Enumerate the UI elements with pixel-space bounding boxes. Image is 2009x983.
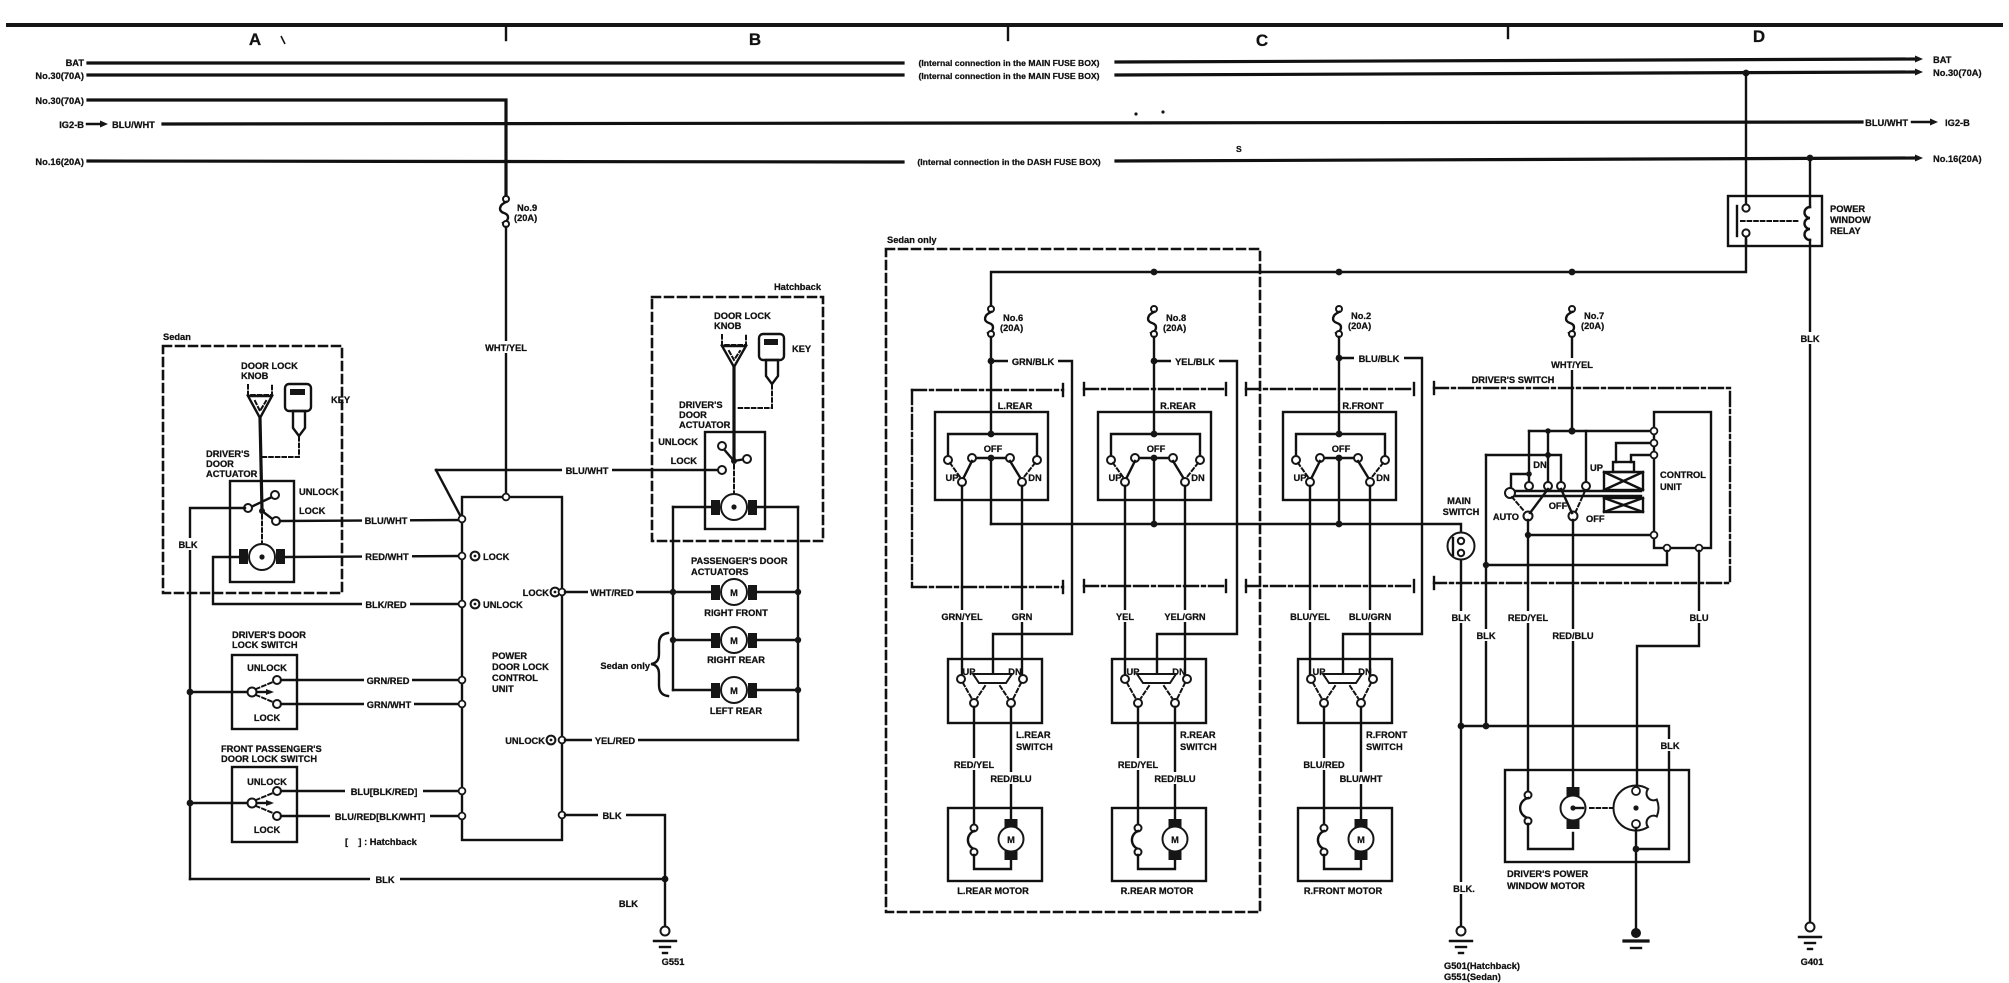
- motor RIGHT REAR actuator: [670, 627, 801, 653]
- svg-text:DN: DN: [1191, 473, 1205, 483]
- svg-text:RED/BLU: RED/BLU: [1552, 631, 1594, 641]
- driver's switch dash-dot enclosure: [1434, 382, 1730, 589]
- relay contacts: [1742, 204, 1749, 211]
- svg-text:YEL/RED: YEL/RED: [595, 736, 636, 746]
- wire fuse No.6 to L.REAR switch: [990, 337, 992, 434]
- wire BLU/BLK to R.FRONT door switch: [1339, 358, 1422, 673]
- svg-text:LOCK: LOCK: [523, 588, 550, 598]
- junction BLK at motor return: [1458, 723, 1465, 730]
- svg-text:DN: DN: [1533, 460, 1547, 470]
- svg-text:No.2: No.2: [1351, 311, 1371, 321]
- svg-text:WINDOW MOTOR: WINDOW MOTOR: [1507, 881, 1585, 891]
- svg-text:OFF: OFF: [984, 444, 1003, 454]
- passenger actuators left feed wire: [672, 507, 674, 690]
- arrow IG2-B to BLU/WHT: [87, 123, 102, 125]
- border tick B|C: [1007, 27, 1009, 40]
- Sedan dashed enclosure: [163, 346, 342, 593]
- svg-text:No.16(20A): No.16(20A): [1933, 154, 1982, 164]
- svg-text:RED/BLU: RED/BLU: [1154, 774, 1196, 784]
- svg-text:DOOR: DOOR: [679, 410, 707, 420]
- pin BLU/WHT on control unit left: [459, 516, 466, 523]
- passenger lock switch UNLOCK contact: [273, 787, 281, 795]
- junction BLU/BLK tap: [1336, 355, 1343, 362]
- svg-text:BLU/RED[BLK/WHT]: BLU/RED[BLK/WHT]: [335, 812, 425, 822]
- wire No.16(20A) bus left segment: [88, 161, 903, 162]
- pin BLK/RED with UNLOCK terminal: [459, 601, 466, 608]
- wire BLK/RED sedan motor to control unit: [213, 557, 460, 604]
- svg-text:GRN/WHT: GRN/WHT: [367, 700, 412, 710]
- R.REAR switch feed bar: [1111, 434, 1200, 456]
- wire BLK main switch to ground: [1460, 560, 1462, 931]
- Sedan only dashed enclosure: [886, 249, 1260, 912]
- wire feed to OFF contact: [1528, 431, 1530, 482]
- wire BLU/RED door switch to motor: [1323, 707, 1325, 828]
- svg-text:IG2-B: IG2-B: [59, 120, 84, 130]
- svg-text:R.REAR: R.REAR: [1180, 730, 1216, 740]
- R.REAR door switch contacts: [1121, 675, 1129, 683]
- wire fuse No.2 to R.FRONT switch: [1338, 337, 1340, 434]
- control unit pins bottom: [1664, 545, 1671, 552]
- svg-text:UP: UP: [1590, 463, 1603, 473]
- wire control unit to solenoid 2: [1631, 455, 1654, 462]
- wire clutch to ground: [1635, 828, 1637, 931]
- wire No.16(20A) bus right segment: [1116, 158, 1916, 161]
- svg-text:LEFT REAR: LEFT REAR: [710, 706, 762, 716]
- wire control unit to solenoid 1: [1616, 443, 1654, 462]
- svg-text:DRIVER'S SWITCH: DRIVER'S SWITCH: [1472, 375, 1555, 385]
- wire WHT/YEL fuse No.9 to door lock control unit: [505, 227, 507, 496]
- top border frame line: [8, 23, 2001, 27]
- pin BLK output right: [559, 812, 566, 819]
- svg-text:BLU/BLK: BLU/BLK: [1359, 354, 1400, 364]
- wire No.16 bus to relay coil: [1809, 158, 1811, 207]
- actuator motor (sedan): [239, 544, 285, 570]
- svg-text:M: M: [730, 636, 738, 646]
- wire BLU/YEL R.FRONT switch UP output: [1309, 486, 1311, 679]
- control unit pins left: [1651, 428, 1658, 435]
- relay contact to window feed bus: [1745, 237, 1747, 244]
- front passenger's door lock switch box: [232, 767, 297, 842]
- stray tick mark near A: [281, 36, 285, 44]
- R.FRONT switch feed bar: [1296, 434, 1385, 456]
- svg-text:C: C: [1256, 31, 1268, 50]
- wire No.30 bus to relay contact: [1745, 73, 1747, 204]
- actuator contact LOCK feed (hatchback): [718, 466, 726, 474]
- power window relay box: [1728, 196, 1822, 246]
- svg-text:Sedan only: Sedan only: [887, 235, 937, 245]
- auto-stop solenoid hat: [1613, 462, 1634, 472]
- svg-text:YEL/BLK: YEL/BLK: [1175, 357, 1215, 367]
- svg-text:M: M: [730, 686, 738, 696]
- actuator contact UNLOCK (hatchback): [718, 442, 726, 450]
- wire GRN/BLK to L.REAR door switch: [991, 361, 1072, 673]
- R.FRONT door switch rocker: [1323, 674, 1362, 683]
- wire DN contacts feed: [1547, 431, 1549, 482]
- R.FRONT window switch box: [1283, 412, 1396, 500]
- wire BAT bus right segment: [1116, 59, 1916, 62]
- svg-text:G401: G401: [1801, 957, 1824, 967]
- svg-text:LOCK: LOCK: [671, 456, 698, 466]
- svg-text:CONTROL: CONTROL: [1660, 470, 1706, 480]
- svg-text:UNLOCK: UNLOCK: [299, 487, 339, 497]
- actuator contact common (sedan): [244, 504, 252, 512]
- svg-text:RED/YEL: RED/YEL: [1508, 613, 1549, 623]
- svg-text:BLK: BLK: [1660, 741, 1679, 751]
- svg-text:RED/YEL: RED/YEL: [1118, 760, 1159, 770]
- driver's door lock switch box: [232, 655, 297, 729]
- passenger actuators right feed wire: [797, 507, 799, 740]
- actuator blade (hatchback): [722, 447, 734, 461]
- svg-text:DOOR LOCK: DOOR LOCK: [714, 311, 771, 321]
- L.REAR door switch rocker: [973, 674, 1012, 683]
- window power feed bus from relay: [991, 240, 1746, 309]
- passenger lock switch common contact: [248, 799, 257, 808]
- svg-text:(Internal connection in the MA: (Internal connection in the MAIN FUSE BO…: [919, 71, 1100, 81]
- wire GRN/YEL L.REAR switch UP output: [961, 486, 963, 679]
- svg-text:M: M: [1007, 835, 1015, 845]
- L.REAR switch feed bar: [948, 434, 1037, 456]
- svg-text:BLU/GRN: BLU/GRN: [1349, 612, 1392, 622]
- arrowhead BAT right: [1915, 56, 1923, 63]
- R.REAR motor M: [1169, 819, 1182, 828]
- svg-text:UNLOCK: UNLOCK: [247, 777, 287, 787]
- svg-text:POWER: POWER: [1830, 204, 1865, 214]
- svg-text:(20A): (20A): [514, 213, 537, 223]
- main switch symbol: [1448, 533, 1475, 560]
- svg-text:Sedan: Sedan: [163, 332, 191, 342]
- svg-text:No.8: No.8: [1166, 313, 1186, 323]
- wire WHT/RED control unit to actuators: [565, 591, 712, 593]
- dashed link motor to clutch: [1590, 807, 1630, 809]
- wire hatchback motor right to passenger feed: [757, 506, 798, 508]
- R.REAR contact row: [1135, 457, 1173, 459]
- moving contact OFF right: [1569, 512, 1578, 521]
- border tick C|D: [1507, 27, 1509, 38]
- svg-text:BLU/RED: BLU/RED: [1303, 760, 1345, 770]
- svg-text:FRONT PASSENGER'S: FRONT PASSENGER'S: [221, 744, 322, 754]
- junction left feed at WHT/RED row: [670, 589, 676, 595]
- svg-text:[ ] : Hatchback: [ ] : Hatchback: [345, 837, 418, 847]
- svg-text:M: M: [730, 588, 738, 598]
- svg-text:BLU: BLU: [1689, 613, 1708, 623]
- svg-text:BLU/WHT: BLU/WHT: [112, 120, 155, 130]
- svg-text:UNLOCK: UNLOCK: [658, 437, 698, 447]
- svg-text:Sedan only: Sedan only: [600, 661, 650, 671]
- svg-text:RELAY: RELAY: [1830, 226, 1861, 236]
- svg-text:LOCK: LOCK: [254, 713, 281, 723]
- svg-text:BLU/WHT: BLU/WHT: [566, 466, 609, 476]
- ground G551: [654, 927, 684, 968]
- auto-stop solenoid lower box: [1604, 498, 1643, 512]
- svg-text:DN: DN: [1376, 473, 1390, 483]
- window switch common bus to main switch: [991, 524, 1461, 533]
- motor RIGHT FRONT actuator: [711, 579, 757, 605]
- svg-text:UP: UP: [1109, 473, 1122, 483]
- wire driver's lock switch common to BLK vertical: [190, 691, 247, 693]
- driver's door actuator box (hatchback): [705, 432, 765, 529]
- svg-text:G551(Sedan): G551(Sedan): [1444, 972, 1501, 982]
- svg-text:RED/BLU: RED/BLU: [990, 774, 1032, 784]
- wire RED/YEL AUTO output to motor: [1527, 535, 1529, 791]
- wire control unit to BLK return: [1486, 551, 1667, 565]
- svg-text:L.REAR: L.REAR: [998, 401, 1033, 411]
- svg-text:WINDOW: WINDOW: [1830, 215, 1871, 225]
- svg-text:No.16(20A): No.16(20A): [35, 157, 84, 167]
- svg-text:ACTUATORS: ACTUATORS: [691, 567, 749, 577]
- L.REAR door switch contacts: [957, 675, 965, 683]
- svg-text:UNLOCK: UNLOCK: [505, 736, 545, 746]
- wire YEL/RED control unit to actuators: [565, 739, 798, 741]
- svg-text:RED/YEL: RED/YEL: [954, 760, 995, 770]
- svg-text:ACTUATOR: ACTUATOR: [679, 420, 731, 430]
- svg-text:BLU[BLK/RED]: BLU[BLK/RED]: [351, 787, 418, 797]
- svg-text:Hatchback: Hatchback: [774, 282, 822, 292]
- svg-text:GRN: GRN: [1012, 612, 1033, 622]
- junction common bus R.REAR: [1151, 521, 1158, 528]
- svg-text:LOCK: LOCK: [254, 825, 281, 835]
- svg-text:(20A): (20A): [1163, 323, 1186, 333]
- svg-text:(20A): (20A): [1348, 321, 1371, 331]
- wire YEL R.REAR switch UP output: [1124, 486, 1126, 679]
- svg-text:DRIVER'S DOOR: DRIVER'S DOOR: [232, 630, 306, 640]
- R.REAR motor commutator arc: [1135, 825, 1142, 832]
- svg-text:No.9: No.9: [517, 203, 537, 213]
- junction common bus R.FRONT: [1336, 521, 1343, 528]
- svg-text:R.REAR MOTOR: R.REAR MOTOR: [1121, 886, 1194, 896]
- svg-text:BLU/WHT: BLU/WHT: [1865, 118, 1908, 128]
- svg-text:R.FRONT MOTOR: R.FRONT MOTOR: [1304, 886, 1383, 896]
- svg-text:OFF: OFF: [1549, 501, 1568, 511]
- svg-text:BLK: BLK: [375, 875, 394, 885]
- wire label BLK (sedan): [172, 538, 203, 550]
- svg-text:No.7: No.7: [1584, 311, 1604, 321]
- svg-text:BLK: BLK: [619, 899, 638, 909]
- L.REAR moving contacts: [963, 461, 972, 479]
- pin BLU[BLK/RED]: [459, 788, 466, 795]
- motor LEFT REAR actuator: [673, 677, 801, 703]
- junction GRN/BLK tap: [988, 358, 995, 365]
- ground G501/G551: [1444, 927, 1520, 983]
- bevel wire BLU/WHT branch to hatchback: [436, 470, 462, 519]
- R.FRONT motor box: [1298, 808, 1392, 881]
- wire BLU/WHT ignition bus: [163, 122, 1862, 124]
- svg-text:UP: UP: [946, 473, 959, 483]
- passenger lock switch arrow: [257, 802, 270, 804]
- wire No.30(70A) bus right segment: [1116, 72, 1916, 75]
- svg-text:YEL: YEL: [1116, 612, 1134, 622]
- R.REAR motor box: [1112, 808, 1206, 881]
- fuse No.8 (20A): [1148, 306, 1186, 337]
- wire RED/YEL door switch to motor: [1137, 707, 1139, 828]
- svg-text:BLK: BLK: [1476, 631, 1495, 641]
- L.REAR motor box: [948, 808, 1042, 881]
- driver's door actuator box (sedan): [230, 481, 294, 582]
- L.REAR contact row: [972, 457, 1010, 459]
- svg-text:SWITCH: SWITCH: [1366, 742, 1403, 752]
- L.REAR motor commutator arc: [971, 825, 978, 832]
- Hatchback dashed enclosure: [652, 297, 823, 541]
- ground at driver's motor: [1624, 928, 1648, 948]
- R.FRONT door switch box: [1298, 659, 1392, 723]
- key symbol (hatchback): [759, 334, 812, 384]
- svg-text:OFF: OFF: [1147, 444, 1166, 454]
- R.REAR window switch box: [1098, 412, 1211, 500]
- svg-text:(Internal connection in the MA: (Internal connection in the MAIN FUSE BO…: [919, 58, 1100, 68]
- actuator contact LOCK (sedan): [272, 517, 280, 525]
- svg-text:G551: G551: [662, 957, 685, 967]
- svg-text:M: M: [1171, 835, 1179, 845]
- dashed link key to knob stem (sedan): [263, 437, 299, 457]
- svg-text:M: M: [1357, 835, 1365, 845]
- clutch assembly circle: [1613, 786, 1658, 831]
- wire BLK sedan actuator common to ground bus: [190, 508, 245, 879]
- junction WHT/YEL at feed line: [1568, 427, 1575, 434]
- L.REAR common output to bus: [990, 461, 992, 524]
- power window control unit box: [1654, 412, 1711, 548]
- door lock knob symbol (hatchback): [722, 335, 746, 367]
- junction No.16 bus to relay coil: [1807, 155, 1814, 162]
- border tick A|B: [505, 27, 507, 40]
- R.FRONT moving contacts: [1311, 461, 1320, 479]
- svg-text:L.REAR MOTOR: L.REAR MOTOR: [957, 886, 1029, 896]
- sedan only brace: [651, 633, 668, 696]
- R.REAR common output to bus: [1153, 461, 1155, 524]
- auto-stop solenoid upper box: [1604, 472, 1643, 490]
- moving contact AUTO: [1524, 512, 1533, 521]
- label BLK. near ground: [1448, 882, 1480, 894]
- wire BLK relay coil to ground G401: [1809, 240, 1811, 927]
- svg-text:BLK: BLK: [1451, 613, 1470, 623]
- svg-text:No.30(70A): No.30(70A): [35, 71, 84, 81]
- wire GRN L.REAR switch DN output: [1021, 486, 1023, 679]
- svg-text:BLK/RED: BLK/RED: [365, 600, 407, 610]
- svg-text:UP: UP: [1294, 473, 1307, 483]
- svg-text:BLK: BLK: [602, 811, 621, 821]
- svg-text:BLU/YEL: BLU/YEL: [1290, 612, 1330, 622]
- svg-text:(20A): (20A): [1000, 323, 1023, 333]
- wire GRN/RED driver's lock switch to control unit: [281, 679, 460, 681]
- driver's lock switch LOCK contact: [273, 700, 281, 708]
- svg-text:YEL/GRN: YEL/GRN: [1164, 612, 1206, 622]
- svg-text:KEY: KEY: [792, 344, 812, 354]
- pin GRN/WHT: [459, 701, 466, 708]
- svg-text:PASSENGER'S DOOR: PASSENGER'S DOOR: [691, 556, 788, 566]
- wire RED/BLU OFF output to motor: [1572, 520, 1574, 788]
- bar end contact: [1505, 488, 1515, 498]
- svg-text:KNOB: KNOB: [241, 371, 269, 381]
- L.REAR door switch box: [948, 659, 1042, 723]
- R.FRONT door switch contacts: [1307, 675, 1315, 683]
- svg-text:GRN/BLK: GRN/BLK: [1012, 357, 1055, 367]
- driver's switch feed line: [1529, 430, 1654, 432]
- svg-text:BAT: BAT: [66, 58, 85, 68]
- staple wire bar end to feed: [1511, 474, 1529, 487]
- svg-text:IG2-B: IG2-B: [1945, 118, 1970, 128]
- knob stem (hatchback): [732, 367, 735, 460]
- wire No.30(70A) feed to fuse No.9: [88, 100, 506, 196]
- junction YEL/BLK tap: [1151, 358, 1158, 365]
- fuse No.6 (20A): [985, 306, 1023, 337]
- blade diagonals: [1530, 489, 1548, 513]
- wire BAT bus left segment: [88, 61, 903, 64]
- junction feed bus No.7: [1569, 269, 1576, 276]
- wire RED/BLU door switch to motor: [1174, 707, 1176, 819]
- R.FRONT dash-dot bracket: [1246, 383, 1414, 592]
- svg-text:R.REAR: R.REAR: [1160, 401, 1196, 411]
- R.FRONT contact row: [1320, 457, 1358, 459]
- svg-text:BAT: BAT: [1933, 55, 1952, 65]
- wire GRN/WHT driver's lock switch to control unit: [281, 703, 460, 705]
- R.REAR dash-dot bracket: [1084, 383, 1226, 592]
- svg-text:OFF: OFF: [1332, 444, 1351, 454]
- svg-text:GRN/RED: GRN/RED: [367, 676, 410, 686]
- svg-text:DOOR LOCK SWITCH: DOOR LOCK SWITCH: [221, 754, 317, 764]
- svg-text:KNOB: KNOB: [714, 321, 742, 331]
- wire hatchback motor left to passenger feed: [673, 506, 711, 508]
- pin RED/WHT with LOCK terminal: [459, 553, 466, 560]
- svg-text:No.30(70A): No.30(70A): [1933, 68, 1982, 78]
- svg-text:RED/WHT: RED/WHT: [365, 552, 409, 562]
- arrowhead No.16 right: [1915, 155, 1923, 162]
- svg-text:(Internal connection in the DA: (Internal connection in the DASH FUSE BO…: [917, 157, 1100, 167]
- svg-text:SWITCH: SWITCH: [1016, 742, 1053, 752]
- svg-text:G501(Hatchback): G501(Hatchback): [1444, 961, 1520, 971]
- svg-text:S: S: [1236, 144, 1242, 154]
- wire YEL/BLK to R.REAR door switch: [1154, 361, 1237, 673]
- svg-text:WHT/RED: WHT/RED: [590, 588, 634, 598]
- L.REAR dash-dot bracket: [912, 384, 1063, 593]
- svg-text:LOCK: LOCK: [483, 552, 510, 562]
- fuse No.7 (20A): [1566, 306, 1604, 337]
- svg-text:BLU/WHT: BLU/WHT: [365, 516, 408, 526]
- relay coil: [1805, 207, 1811, 240]
- svg-text:UNLOCK: UNLOCK: [483, 600, 523, 610]
- wire YEL/GRN R.REAR switch DN output: [1184, 486, 1186, 679]
- wire BLK ground bus (sedan side): [190, 878, 665, 880]
- driver's power window motor box: [1505, 770, 1689, 862]
- driver's lock switch arrow: [257, 691, 270, 693]
- L.REAR motor M: [1005, 819, 1018, 828]
- driver's motor commutator arc: [1525, 792, 1532, 799]
- svg-text:OFF: OFF: [1586, 514, 1605, 524]
- svg-text:BLK: BLK: [178, 540, 197, 550]
- wire RED/BLU door switch to motor: [1010, 707, 1012, 819]
- arrow BLU/WHT to IG2-B right: [1912, 121, 1930, 123]
- actuator switch blade (sedan): [249, 496, 274, 508]
- actuator contact UNLOCK (sedan): [271, 491, 279, 499]
- passenger lock switch LOCK contact: [273, 812, 281, 820]
- wire passenger lock switch common to BLK vertical: [190, 802, 247, 804]
- wire BLU/GRN R.FRONT switch DN output: [1369, 486, 1371, 679]
- svg-text:AUTO: AUTO: [1493, 512, 1519, 522]
- wire BLU/RED[BLK/WHT] passenger switch to control unit: [281, 815, 460, 817]
- pin BLU/RED[BLK/WHT]: [459, 813, 466, 820]
- dashed link blade to motor (hatchback): [733, 465, 735, 492]
- wire RED/YEL door switch to motor: [973, 707, 975, 828]
- driver's power window motor: [1561, 787, 1586, 829]
- svg-text:KEY: KEY: [331, 395, 351, 405]
- svg-text:WHT/YEL: WHT/YEL: [485, 343, 527, 353]
- actuator contact right (hatchback): [743, 455, 751, 463]
- pin GRN/RED: [459, 677, 466, 684]
- svg-text:(20A): (20A): [1581, 321, 1604, 331]
- junction feed bus No.2: [1336, 269, 1343, 276]
- svg-text:A: A: [249, 30, 261, 49]
- svg-text:DOOR LOCK: DOOR LOCK: [241, 361, 298, 371]
- svg-text:DOOR: DOOR: [206, 459, 234, 469]
- fuse No.9 (20A): [500, 196, 537, 227]
- svg-text:BLU/WHT: BLU/WHT: [1340, 774, 1383, 784]
